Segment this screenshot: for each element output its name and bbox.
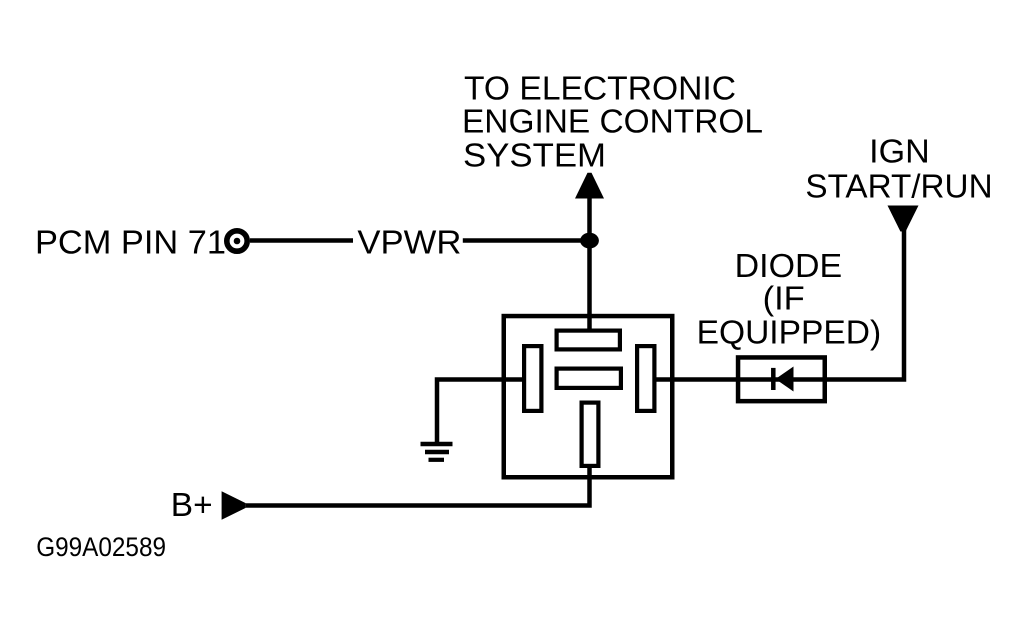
label: DIODE (IF EQUIPPED) [697,247,882,350]
relay contact middle bar [557,369,621,388]
connector terminal PCM PIN 71 [227,231,247,251]
relay terminal bottom bar [582,403,599,466]
svg-text:EQUIPPED): EQUIPPED) [697,313,882,350]
wire IGN down to diode [825,229,904,380]
svg-text:ENGINE CONTROL: ENGINE CONTROL [462,103,763,140]
diode D1 [773,367,793,392]
wire VPWR to junction [463,238,590,243]
svg-text:IGN: IGN [869,133,930,170]
relay box [504,316,673,477]
ground [421,444,453,460]
wire relay to ground [437,380,524,444]
wire PCM PIN 71 to VPWR [250,238,353,243]
wire junction up and down to relay coil [587,196,592,332]
wire relay to diode [654,377,827,382]
relay coil left bar [524,346,541,411]
relay contact top bar [557,331,620,350]
svg-text:VPWR: VPWR [357,224,461,261]
label: TO ELECTRONIC ENGINE CONTROL SYSTEM [462,69,763,173]
svg-text:SYSTEM: SYSTEM [463,137,606,174]
svg-text:TO ELECTRONIC: TO ELECTRONIC [464,69,736,106]
label: IGN START/RUN [805,133,992,205]
svg-text:B+: B+ [171,486,213,523]
svg-text:START/RUN: START/RUN [805,168,992,205]
diode box [738,357,825,401]
junction node [580,233,599,249]
B+ feed arrow [222,491,246,519]
IGN START/RUN feed arrow [888,206,919,232]
svg-text:DIODE: DIODE [735,247,843,284]
svg-text:(IF: (IF [763,280,805,317]
wire B+ to relay [246,466,590,506]
relay coil right bar [637,346,654,411]
svg-text:G99A02589: G99A02589 [36,532,166,562]
arrow to electronic engine control system [575,173,604,199]
svg-text:PCM PIN 71: PCM PIN 71 [35,223,226,260]
